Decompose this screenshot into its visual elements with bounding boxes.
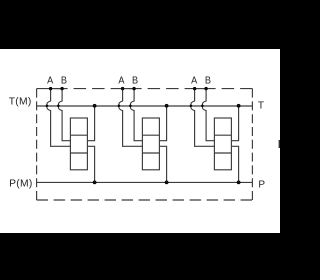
junction dot B2 top — [132, 87, 135, 90]
valve section 2 divider upper — [142, 134, 159, 136]
svg-text:B: B — [61, 76, 67, 87]
valve section 1 envelope — [70, 118, 87, 170]
junction dot valve1 P — [93, 181, 97, 185]
hop cusp dot A2 — [118, 105, 121, 108]
wire A3-B3 top tie — [195, 88, 207, 90]
wire port B2 with crossover hop — [130, 89, 142, 141]
valve section 2 envelope — [142, 118, 159, 170]
junction dot valve2 T — [165, 104, 169, 108]
junction dot A3 top — [193, 87, 196, 90]
wire valve 3 to T line — [231, 106, 238, 141]
svg-text:B: B — [205, 76, 211, 87]
hop cusp dot B1 — [57, 105, 60, 108]
svg-text:A: A — [118, 76, 124, 87]
wire A1-B1 top tie — [51, 88, 63, 90]
junction dot A2 top — [121, 87, 124, 90]
enclosure dashed border left — [36, 89, 38, 200]
wire valve 1 to T line — [87, 106, 94, 141]
junction dot valve3 T — [237, 104, 241, 108]
wire port A2 with crossover hop — [119, 89, 143, 147]
hop cusp dot A3 — [190, 105, 193, 108]
valve section 1 divider lower — [70, 152, 87, 154]
hop cusp dot B3 — [201, 105, 204, 108]
valve section 1 divider upper — [70, 134, 87, 136]
junction dot B3 top — [204, 87, 207, 90]
junction dot B1 top — [60, 87, 63, 90]
wire port B3 with crossover hop — [202, 89, 214, 141]
hop cusp dot A1 — [46, 105, 49, 108]
wire port A3 with crossover hop — [191, 89, 215, 147]
wire valve 3 to P line — [231, 146, 238, 182]
enclosure dashed border bottom — [37, 199, 253, 201]
edge artifact mark right side — [279, 140, 280, 148]
valve section 3 divider lower — [214, 152, 231, 154]
svg-text:B: B — [132, 76, 138, 87]
wire A2-B2 top tie — [123, 88, 135, 90]
junction dot A1 top — [49, 87, 52, 90]
svg-text:T(M): T(M) — [9, 96, 32, 107]
junction dot valve3 P — [237, 181, 241, 185]
svg-text:P(M): P(M) — [9, 178, 33, 189]
enclosure dashed border right — [251, 89, 253, 200]
svg-text:T: T — [258, 101, 264, 112]
wire pressure line P(M)-P — [37, 181, 253, 183]
valve section 3 divider upper — [214, 134, 231, 136]
hop cusp dot B2 — [129, 105, 132, 108]
wire port B1 with crossover hop — [58, 89, 70, 141]
enclosure dashed border top — [37, 88, 253, 90]
valve section 3 envelope — [214, 118, 231, 170]
junction dot valve1 T — [93, 104, 97, 108]
wire valve 1 to P line — [87, 146, 94, 182]
wire port A1 with crossover hop — [47, 89, 71, 147]
wire valve 2 to P line — [159, 146, 166, 182]
valve section 2 divider lower — [142, 152, 159, 154]
svg-text:A: A — [191, 76, 197, 87]
junction dot valve2 P — [165, 181, 169, 185]
svg-text:A: A — [47, 76, 53, 87]
wire valve 2 to T line — [159, 106, 166, 141]
wire tank line T(M)-T — [37, 105, 253, 107]
svg-text:P: P — [258, 179, 265, 190]
